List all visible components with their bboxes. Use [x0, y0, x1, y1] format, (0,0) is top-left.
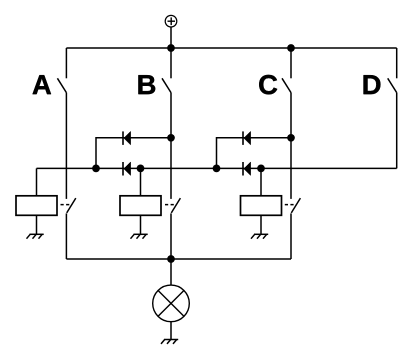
label B [138, 75, 155, 94]
wire upper diode branch right [217, 138, 292, 169]
wire A bottom [65, 213, 67, 259]
label A [33, 75, 51, 94]
relay coil K1 [16, 196, 57, 216]
wire coil K2 to ground [140, 216, 142, 235]
wire A middle [65, 93, 67, 199]
wire lamp to ground [170, 322, 172, 340]
relay contact K3 [285, 198, 301, 213]
junction dot bottom rail / lamp [167, 255, 175, 263]
wire C middle [290, 93, 292, 199]
relay coil K3 [241, 196, 282, 216]
wire coil K1 to ground [36, 216, 38, 235]
junction dot top rail / C [287, 44, 295, 52]
junction dot midline / coil K3 [257, 165, 265, 173]
wire B middle [170, 93, 172, 199]
relay contact K1 [61, 198, 76, 213]
wire B bottom [170, 213, 172, 259]
junction dot midline / coil K2 [137, 165, 145, 173]
diode D3 (upper right) [243, 131, 251, 145]
ground coil K1 [27, 234, 44, 238]
diode D2 (lower left) [123, 162, 131, 176]
wire bottom rail to lamp [170, 259, 172, 285]
wire midline to coil K1 [36, 168, 38, 195]
junction dot B / diode row [167, 134, 175, 142]
wire midline to coil K3 [260, 168, 262, 195]
wire midline to coil K2 [140, 168, 142, 195]
diode D4 (lower right) [243, 162, 251, 176]
switch C [282, 48, 291, 93]
junction dot midline x=96 [92, 165, 100, 173]
power supply terminal U+ [165, 15, 177, 27]
switch B [162, 48, 171, 93]
switch A [57, 48, 66, 93]
wire D to midline [396, 93, 398, 169]
wire coil K3 to ground [260, 216, 262, 235]
switch D [388, 48, 397, 93]
top rail wire [66, 47, 396, 49]
ground coil K2 [131, 234, 148, 238]
wire C bottom [290, 213, 292, 259]
junction dot C / diode row [287, 134, 295, 142]
relay contact K2 [165, 198, 180, 213]
lamp L1 [153, 285, 190, 322]
wire power to top rail [170, 27, 172, 48]
label D [364, 75, 381, 94]
ground lamp [161, 340, 178, 344]
bottom rail wire [66, 258, 291, 260]
diode D1 (upper left) [123, 131, 131, 145]
junction dot top rail / B [167, 44, 175, 52]
ground coil K3 [251, 234, 268, 238]
midline wire [37, 167, 397, 169]
label C [259, 75, 277, 94]
wire upper diode branch left [96, 138, 171, 169]
junction dot midline x=216.5 [213, 165, 221, 173]
relay coil K2 [120, 196, 161, 216]
